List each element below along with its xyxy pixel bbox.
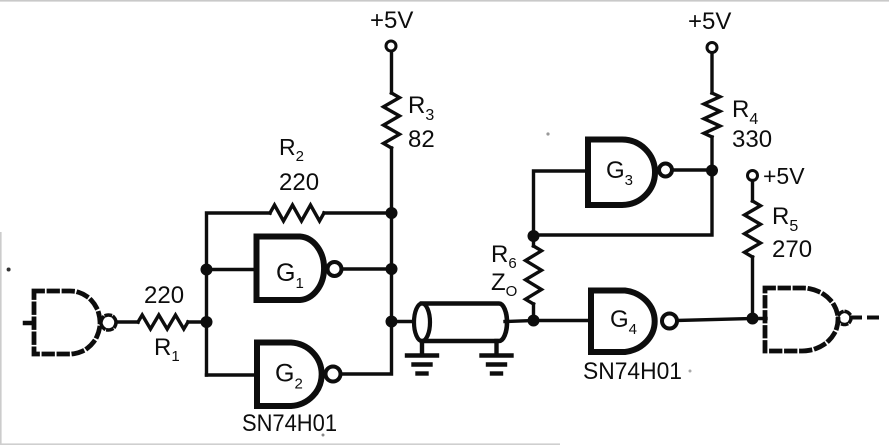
wire R3 to node B (390, 148, 393, 213)
svg-text:330: 330 (732, 126, 772, 153)
power +5V terminal (R4) (707, 43, 717, 53)
scan speck bottom (322, 434, 325, 437)
svg-text:220: 220 (144, 282, 184, 309)
gate U5 input stub (25, 321, 34, 326)
resistor R6 (526, 246, 542, 304)
svg-text:G2: G2 (275, 360, 303, 393)
wire node B column (390, 213, 393, 269)
gate U5 (dashed driver, input source) (34, 291, 100, 354)
svg-text:+5V: +5V (763, 163, 805, 189)
wire G3 input (534, 171, 589, 236)
resistor R2 (270, 205, 324, 221)
gate U5 output bubble (dashed) (101, 315, 116, 330)
gate G1 output bubble (328, 262, 342, 276)
coax left end cap (414, 304, 430, 342)
wire node C to G4 input (534, 319, 592, 322)
svg-text:G4: G4 (610, 306, 637, 338)
scan artifact: top border (0, 0, 889, 2)
coax transmission line body (422, 304, 507, 342)
node B junction (coax row) (386, 316, 398, 328)
svg-text:+5V: +5V (688, 8, 731, 35)
scan speck right (689, 370, 692, 373)
svg-text:R5: R5 (772, 203, 798, 235)
wire R2 to node B (324, 211, 392, 214)
svg-text:R3: R3 (408, 92, 434, 124)
ground (coax right) (482, 341, 512, 374)
wire G4 output (677, 319, 753, 321)
gate G3 output bubble (659, 164, 672, 177)
resistor R1 (138, 315, 188, 329)
node B junction (R2/R3) (386, 207, 398, 219)
wire left gate to R1 (117, 320, 138, 323)
gate G2 output bubble (326, 367, 341, 382)
wire R6 bottom stub (532, 304, 535, 321)
scan artifact: bottom border (0, 443, 560, 445)
node B junction (G1 output) (386, 263, 398, 275)
wire coax to node C (505, 321, 534, 322)
node C junction (coax output) (528, 315, 540, 327)
node A junction (R1 row) (201, 316, 213, 328)
wire +5V to R3 (390, 52, 393, 94)
wire node F to receiver gate (753, 317, 767, 320)
wire left column (node A vertical) (207, 213, 271, 375)
svg-text:82: 82 (408, 126, 435, 153)
power +5V terminal (R3) (386, 41, 396, 51)
power +5V terminal (R5) (748, 171, 758, 181)
wire G2 output (341, 322, 392, 374)
svg-text:G3: G3 (606, 157, 633, 189)
op-amp G1 (NAND gate) (257, 237, 325, 301)
op-amp G2 (NAND gate) (257, 343, 322, 407)
resistor R4 (704, 93, 720, 137)
wire +5V to R5 (751, 181, 754, 202)
node D junction (R6 top) (528, 230, 540, 242)
svg-text:R6: R6 (491, 241, 517, 272)
wire +5V to R4 (710, 53, 713, 93)
resistor R3 (384, 93, 400, 148)
node F junction (G4 out / R5) (747, 313, 759, 325)
scan artifact: left border (0, 232, 2, 445)
svg-text:ZO: ZO (491, 269, 517, 300)
wire G3 output (672, 168, 712, 171)
svg-text:R1: R1 (154, 334, 180, 365)
gate U6 output bubble (dashed) (838, 312, 851, 325)
svg-text:270: 270 (772, 236, 812, 263)
wire R5 to output node (751, 257, 754, 319)
svg-text:SN74H01: SN74H01 (242, 410, 337, 437)
wire feedback G3 to node D (534, 171, 713, 236)
svg-text:G1: G1 (276, 259, 304, 292)
gate G4 output bubble (662, 314, 677, 329)
gate U6 (dashed receiver) (765, 288, 838, 351)
svg-text:+5V: +5V (370, 7, 413, 34)
wire U6 output stub (dashed) (852, 316, 878, 320)
wire R4 to G3 output node (710, 137, 713, 170)
svg-text:R2: R2 (279, 134, 304, 165)
wire node B to coax row (390, 269, 393, 322)
wire R1 to node A (188, 320, 207, 323)
ground (coax left) (407, 341, 437, 374)
svg-text:SN74H01: SN74H01 (583, 358, 682, 385)
node E junction (G3 out / R4) (706, 165, 718, 177)
op-amp G3 (NAND gate) (588, 140, 655, 206)
scan speck left (7, 268, 11, 272)
wire G1 output (342, 267, 392, 270)
resistor R5 (745, 201, 761, 257)
svg-text:R4: R4 (732, 96, 758, 128)
wire R6 top stub (532, 236, 535, 246)
wire G2 input (207, 373, 258, 376)
scan speck middle (546, 132, 549, 135)
wire node B to coax (392, 320, 415, 323)
svg-text:220: 220 (279, 169, 319, 196)
node A junction (G1 input row) (201, 264, 213, 276)
op-amp G4 (NAND gate) (591, 291, 655, 353)
wire G1 input (207, 268, 257, 271)
